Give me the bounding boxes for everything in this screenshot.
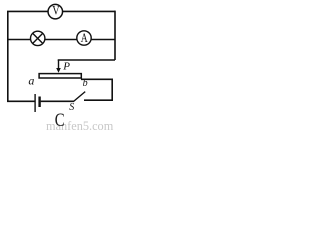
svg-text:S: S <box>69 102 74 113</box>
battery short thick plate (-) <box>38 97 40 108</box>
wire: bottom horizontal from battery to switch <box>41 100 74 102</box>
wire: middle horizontal (lamp + ammeter row) <box>7 39 115 41</box>
svg-text:A: A <box>81 32 88 45</box>
wire: from rheostat terminal b to lower right vertical <box>81 78 112 80</box>
wire: top horizontal (voltmeter branch) <box>7 10 115 12</box>
wire: left vertical from top row down to battery row <box>7 11 9 101</box>
rheostat R (slide resistor box) <box>39 74 81 78</box>
wire: bottom horizontal left of battery <box>7 100 35 102</box>
svg-text:C: C <box>55 109 65 130</box>
wire: switch right stub <box>84 99 113 101</box>
slider arrowhead <box>56 68 61 73</box>
slider arrow stem <box>58 60 60 68</box>
svg-text:a: a <box>28 73 34 87</box>
wire: lower right vertical <box>111 79 113 101</box>
svg-text:P: P <box>62 60 70 72</box>
voltmeter U-V <box>48 4 63 19</box>
svg-text:V: V <box>52 5 60 18</box>
wire: upper right vertical <box>114 11 116 60</box>
switch S blade (open) <box>74 92 86 102</box>
battery long plate (+) <box>34 94 36 112</box>
wire: slider feed from right vertical to arrow P <box>58 59 115 61</box>
lamp L1 <box>31 31 45 45</box>
ammeter U-A <box>77 31 91 45</box>
